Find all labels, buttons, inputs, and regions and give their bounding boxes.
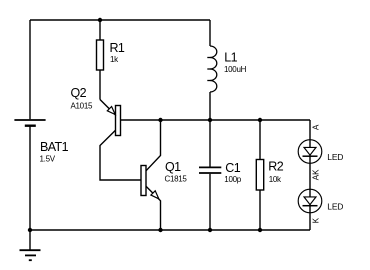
svg-text:AK: AK <box>311 169 320 180</box>
svg-text:K: K <box>311 217 320 223</box>
svg-text:1k: 1k <box>110 55 119 64</box>
svg-text:10k: 10k <box>269 175 282 184</box>
svg-text:1.5V: 1.5V <box>40 155 56 164</box>
svg-text:100p: 100p <box>224 175 241 184</box>
svg-text:R2: R2 <box>268 160 283 174</box>
svg-text:C1: C1 <box>225 161 240 175</box>
svg-text:BAT1: BAT1 <box>40 140 69 154</box>
svg-text:Q2: Q2 <box>71 86 87 100</box>
svg-text:C1815: C1815 <box>165 174 188 183</box>
svg-text:100uH: 100uH <box>224 65 247 74</box>
svg-text:LED: LED <box>327 202 343 212</box>
svg-text:A1015: A1015 <box>71 101 93 110</box>
svg-text:LED: LED <box>327 152 343 162</box>
svg-text:Q1: Q1 <box>165 160 181 174</box>
svg-text:L1: L1 <box>224 51 237 65</box>
svg-text:R1: R1 <box>110 41 125 55</box>
svg-text:A: A <box>311 124 320 130</box>
